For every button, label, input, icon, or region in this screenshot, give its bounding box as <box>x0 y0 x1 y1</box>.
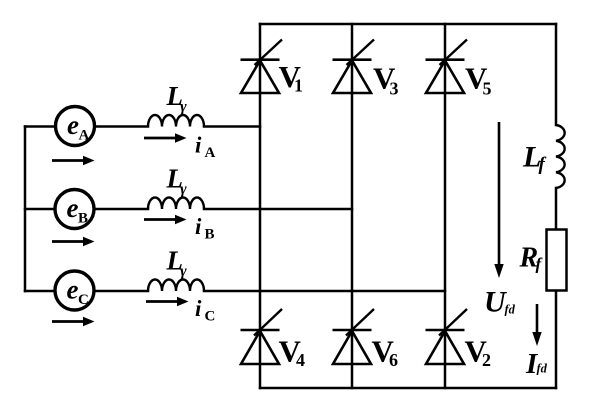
thyristor V5 <box>426 40 492 99</box>
svg-text:f: f <box>536 255 544 274</box>
inductor Lf <box>522 125 565 188</box>
wire bottom rail <box>260 387 556 390</box>
svg-text:2: 2 <box>482 350 491 370</box>
source eB <box>55 190 94 229</box>
wire right side below Rf <box>555 291 558 389</box>
svg-text:1: 1 <box>294 76 303 96</box>
arrow Ufd voltage <box>484 122 516 319</box>
svg-text:C: C <box>205 309 216 325</box>
svg-text:i: i <box>195 296 202 321</box>
wire left bus <box>24 127 27 292</box>
wire phase B from bus to source <box>25 208 56 211</box>
svg-text:A: A <box>79 128 90 144</box>
source eA <box>56 107 95 146</box>
wire top rail <box>260 23 556 26</box>
arrow current iC <box>146 296 215 325</box>
svg-text:5: 5 <box>483 79 492 99</box>
svg-text:fd: fd <box>505 303 516 317</box>
wire phase B inductor to bridge <box>204 208 352 211</box>
wire right side top <box>555 24 558 125</box>
thyristor V2 <box>426 309 492 370</box>
svg-text:B: B <box>205 227 215 243</box>
wire bridge column 3 <box>444 24 447 388</box>
thyristor V1 <box>241 40 304 96</box>
wire phase A source to inductor <box>94 125 149 128</box>
svg-text:i: i <box>195 214 202 239</box>
inductor Lgamma phase C <box>148 246 204 292</box>
wire phase C source to inductor <box>93 290 148 293</box>
svg-text:e: e <box>67 275 79 305</box>
wire phase C from bus to source <box>25 290 56 293</box>
arrow eB direction <box>52 237 95 247</box>
svg-text:A: A <box>205 145 216 161</box>
wire bridge column 1 <box>259 24 262 388</box>
svg-text:6: 6 <box>389 350 398 370</box>
wire phase A inductor to bridge <box>204 125 260 128</box>
inductor Lgamma phase A <box>148 81 204 127</box>
svg-text:γ: γ <box>180 263 187 280</box>
wire phase B source to inductor <box>93 208 148 211</box>
svg-text:e: e <box>67 193 79 223</box>
svg-text:C: C <box>78 292 89 308</box>
resistor Rf <box>519 230 567 291</box>
source eC <box>55 271 94 310</box>
wire phase A from bus to source <box>25 125 57 128</box>
arrow eA direction <box>52 156 95 166</box>
svg-text:e: e <box>67 110 79 140</box>
svg-text:3: 3 <box>390 79 399 99</box>
arrow current iA <box>144 133 216 162</box>
arrow eC direction <box>52 317 95 327</box>
svg-text:γ: γ <box>180 99 187 116</box>
wire right side between Lf and Rf <box>555 188 558 230</box>
svg-text:4: 4 <box>296 350 305 370</box>
svg-text:fd: fd <box>537 362 548 376</box>
thyristor V4 <box>241 309 306 370</box>
wire bridge column 2 <box>351 24 354 388</box>
svg-text:γ: γ <box>180 181 187 198</box>
arrow current iB <box>144 214 215 243</box>
thyristor V6 <box>333 309 399 370</box>
inductor Lgamma phase B <box>148 164 204 210</box>
svg-text:f: f <box>539 154 547 175</box>
thyristor V3 <box>333 40 399 99</box>
svg-text:i: i <box>195 133 202 158</box>
wire phase C inductor to bridge <box>204 290 445 293</box>
arrow Ifd current <box>525 304 548 380</box>
svg-text:B: B <box>78 211 88 227</box>
